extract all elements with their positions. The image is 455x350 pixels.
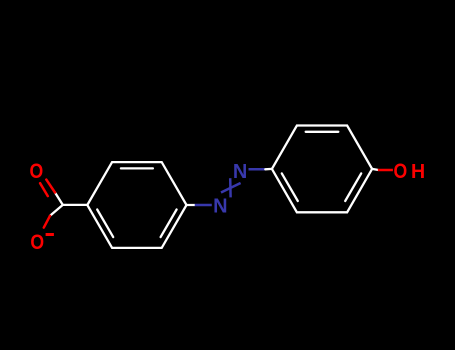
svg-text:O: O [394, 160, 408, 184]
left ring inner double bond (lower-right edge) [161, 210, 177, 238]
azo crossed double bond steep line [229, 178, 232, 197]
right benzene ring outline [272, 126, 372, 213]
bond N to right ring blue half [249, 168, 266, 171]
svg-text:H: H [411, 161, 425, 183]
bond ring to N white half [187, 204, 195, 206]
C=O double bond main line red half [46, 180, 55, 193]
right ring inner double bond (lower-right edge) [345, 173, 361, 201]
svg-text:O: O [30, 159, 44, 183]
left ring inner double bond (lower-left edge) [97, 210, 113, 238]
bond ring to OH white half [372, 169, 378, 170]
C-O single bond red half [44, 216, 50, 228]
left ring inner double bond (top edge) [121, 167, 153, 169]
right ring inner double bond (lower-left edge) [282, 173, 298, 201]
left benzene ring outline [87, 162, 186, 248]
svg-text:N: N [233, 161, 247, 183]
minus sign of O minus [46, 233, 54, 236]
svg-text:O: O [30, 231, 44, 255]
bond N to right ring white half [265, 168, 272, 171]
bond ring to OH red half [378, 169, 393, 172]
C=O double bond main line white half [55, 193, 63, 205]
svg-text:N: N [213, 195, 227, 217]
C=O double bond secondary line (red) [40, 183, 48, 196]
bond carboxyl C to ring (white) [63, 204, 88, 206]
azo crossed double bond shallow line [221, 183, 241, 193]
bond ring to N blue half [195, 204, 212, 207]
right ring inner double bond (top edge) [306, 131, 339, 133]
C-O single bond white half [50, 205, 63, 216]
